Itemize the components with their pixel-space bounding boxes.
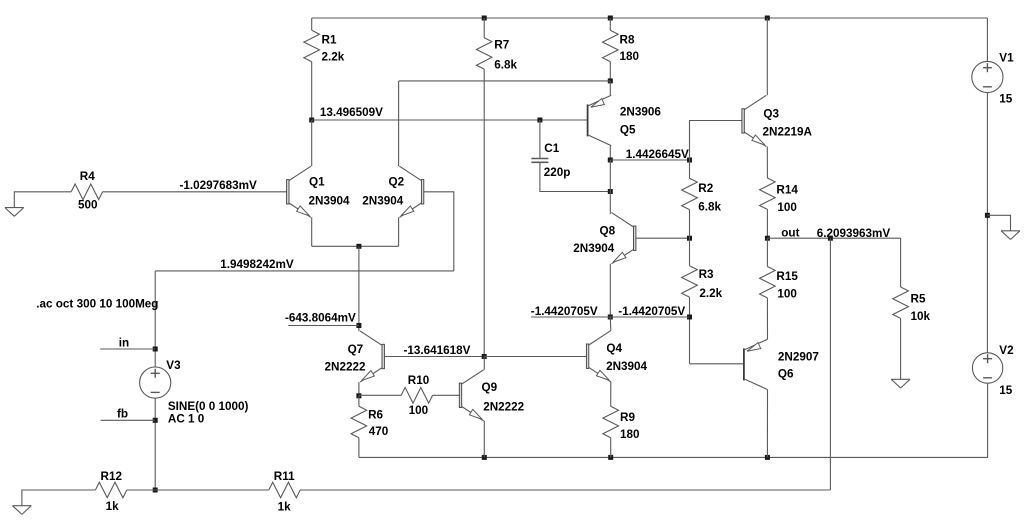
node -13.641618V junction bbox=[482, 354, 487, 359]
node junction C1 bottom bbox=[608, 189, 613, 194]
svg-text:R11: R11 bbox=[274, 470, 295, 483]
svg-text:2.2k: 2.2k bbox=[699, 287, 722, 300]
label Q7 bbox=[348, 343, 364, 356]
wire R4 to Q1 base bbox=[103, 191, 287, 193]
svg-text:fb: fb bbox=[117, 408, 128, 421]
wire out node bbox=[767, 237, 900, 239]
node junction Q7 emitter / R6 / R10 bbox=[356, 393, 361, 398]
label Q3 bbox=[763, 108, 779, 121]
wire Q8 collector vertical bbox=[609, 160, 611, 214]
svg-text:Q1: Q1 bbox=[309, 176, 325, 189]
wire V1 bottom to V2 top bbox=[986, 93, 988, 353]
label fb bbox=[117, 408, 128, 421]
label R3 bbox=[699, 268, 714, 281]
wire Q5 collector lead bbox=[609, 146, 611, 160]
label R7 bbox=[494, 38, 509, 51]
wire feedback to V3 bbox=[155, 270, 454, 272]
svg-text:-13.641618V: -13.641618V bbox=[404, 344, 471, 357]
wire node to Q5 base bbox=[312, 119, 588, 121]
label 100 (R14) bbox=[777, 201, 797, 214]
label 2N3904 (Q1) bbox=[309, 195, 350, 208]
svg-text:out: out bbox=[781, 227, 799, 240]
resistor R3 bbox=[682, 238, 698, 364]
wire bottom negative rail bbox=[359, 456, 988, 458]
svg-text:Q8: Q8 bbox=[600, 225, 616, 238]
wire left ground lead bbox=[14, 192, 71, 208]
wire R12 to R11 bbox=[127, 489, 269, 491]
node junction C1 top bbox=[537, 118, 542, 123]
wire Q8 emitter down bbox=[609, 264, 611, 317]
wire Q4 emitter down bbox=[610, 382, 612, 407]
node -643.8064mV junction bbox=[356, 323, 361, 328]
label 13.496509V bbox=[320, 106, 383, 119]
label 15 (V2 value) bbox=[999, 384, 1013, 397]
svg-text:2N3904: 2N3904 bbox=[606, 360, 647, 373]
svg-text:V2: V2 bbox=[999, 344, 1014, 357]
label Q6 bbox=[778, 367, 794, 380]
svg-text:2N2219A: 2N2219A bbox=[763, 126, 813, 139]
node junction R9 bottom bbox=[608, 455, 613, 460]
svg-text:R15: R15 bbox=[776, 270, 798, 283]
transistor Q2 bbox=[399, 166, 423, 217]
svg-text:100: 100 bbox=[777, 288, 797, 301]
svg-text:13.496509V: 13.496509V bbox=[320, 106, 383, 119]
node junction V3 bottom bbox=[153, 488, 158, 493]
transistor Q3 bbox=[742, 95, 766, 146]
label 1.9498242mV bbox=[220, 258, 294, 271]
ground under R5 bbox=[891, 379, 910, 388]
svg-text:Q7: Q7 bbox=[348, 343, 364, 356]
svg-text:Q5: Q5 bbox=[620, 124, 636, 137]
label Q2 bbox=[389, 176, 405, 189]
resistor R8 bbox=[603, 18, 619, 81]
label 2N3904 (Q2) bbox=[362, 195, 403, 208]
wire out vertical to feedback bbox=[829, 238, 831, 490]
svg-text:V1: V1 bbox=[999, 51, 1014, 64]
label 2N3906 (Q5) bbox=[620, 105, 661, 118]
label R6 bbox=[368, 409, 383, 422]
resistor R11 bbox=[269, 482, 300, 498]
voltage source V3 bbox=[140, 367, 171, 398]
svg-text:2N3906: 2N3906 bbox=[620, 105, 661, 118]
wire Q3 collector up bbox=[766, 18, 768, 95]
svg-text:2N2222: 2N2222 bbox=[325, 361, 366, 374]
node junction R8 bottom bbox=[608, 78, 613, 83]
label -13.641618V bbox=[404, 344, 471, 357]
svg-text:6.8k: 6.8k bbox=[494, 59, 517, 72]
label V2 bbox=[999, 344, 1014, 357]
label 2N2907 (Q6) bbox=[778, 351, 819, 364]
wire Q6 base wire bbox=[690, 363, 744, 365]
wire tail vertical bbox=[358, 246, 360, 331]
wire V3 vertical top bbox=[154, 271, 156, 367]
label 10k (R5) bbox=[911, 310, 931, 323]
resistor R14 bbox=[760, 178, 776, 238]
node -1.4420705V junction left bbox=[608, 315, 613, 320]
svg-text:-1.0297683mV: -1.0297683mV bbox=[180, 179, 258, 192]
svg-text:15: 15 bbox=[999, 384, 1013, 397]
label Q1 bbox=[309, 176, 325, 189]
node -1.4420705V junction right bbox=[687, 315, 692, 320]
wire V2 bottom lead bbox=[986, 383, 988, 457]
label 2.2k (R3) bbox=[699, 287, 722, 300]
node junction R7 top bbox=[482, 16, 487, 21]
resistor R5 bbox=[893, 287, 909, 379]
node out junction bbox=[765, 236, 770, 241]
svg-text:2N3904: 2N3904 bbox=[573, 242, 614, 255]
wire out to R5 bbox=[900, 238, 902, 287]
node junction R2 top bbox=[687, 158, 692, 163]
label R4 bbox=[80, 170, 95, 183]
label Q4 bbox=[606, 342, 622, 355]
wire emitter rail bbox=[312, 245, 399, 247]
label R12 bbox=[101, 470, 123, 483]
label 180 (R9) bbox=[620, 428, 640, 441]
transistor Q4 bbox=[586, 331, 610, 382]
resistor R7 bbox=[476, 18, 492, 357]
resistor R4 bbox=[71, 184, 102, 200]
wire 1.4426645V node bbox=[610, 159, 689, 161]
svg-text:R12: R12 bbox=[101, 470, 123, 483]
label 180 (R8) bbox=[620, 50, 640, 63]
svg-text:V3: V3 bbox=[166, 359, 181, 372]
node 1.4426645V junction bbox=[608, 158, 613, 163]
label 2N3904 (Q8) bbox=[573, 242, 614, 255]
label 6.8k (R2) bbox=[698, 201, 721, 214]
label 100 (R15) bbox=[777, 288, 797, 301]
label V1 bbox=[999, 51, 1014, 64]
svg-text:Q2: Q2 bbox=[389, 176, 405, 189]
label 1k (R12) bbox=[106, 500, 120, 513]
svg-text:100: 100 bbox=[777, 201, 797, 214]
label 2.2k (R1) bbox=[322, 51, 345, 64]
label R2 bbox=[698, 182, 713, 195]
svg-text:500: 500 bbox=[78, 198, 98, 211]
svg-text:-1.4420705V: -1.4420705V bbox=[531, 305, 598, 318]
svg-text:Q3: Q3 bbox=[763, 108, 779, 121]
wire R11 to out vertical bbox=[300, 489, 830, 491]
wire Q3 base wire bbox=[690, 121, 742, 161]
svg-text:-643.8064mV: -643.8064mV bbox=[285, 312, 356, 325]
node junction out vertical bbox=[828, 236, 833, 241]
label R5 bbox=[911, 293, 926, 306]
svg-text:2N3904: 2N3904 bbox=[362, 195, 403, 208]
label AC 1 0 bbox=[168, 413, 205, 426]
label Q8 bbox=[600, 225, 616, 238]
label 6.8k (R7) bbox=[494, 59, 517, 72]
transistor Q5 bbox=[588, 95, 612, 145]
label R10 bbox=[408, 374, 430, 387]
wire Q2 collector to R8 bottom bbox=[399, 80, 611, 82]
svg-text:1k: 1k bbox=[106, 500, 120, 513]
transistor Q7 bbox=[360, 331, 384, 382]
label -643.8064mV bbox=[285, 312, 356, 325]
wire Q7 emitter lead bbox=[358, 382, 360, 396]
label Q5 bbox=[620, 124, 636, 137]
label R9 bbox=[620, 411, 635, 424]
label R15 bbox=[776, 270, 798, 283]
voltage source V2 bbox=[972, 353, 1002, 383]
label -1.4420705V (right) bbox=[618, 305, 685, 318]
svg-text:R5: R5 bbox=[911, 293, 926, 306]
svg-text:R1: R1 bbox=[322, 34, 337, 47]
capacitor C1 bbox=[531, 120, 610, 192]
node junction Q9 emitter bottom bbox=[482, 455, 487, 460]
svg-text:Q9: Q9 bbox=[482, 381, 498, 394]
svg-text:R6: R6 bbox=[368, 409, 383, 422]
wire Q6 collector down bbox=[766, 390, 768, 458]
svg-text:10k: 10k bbox=[911, 310, 931, 323]
svg-text:1k: 1k bbox=[278, 501, 292, 514]
wire Q4 collector up bbox=[609, 317, 612, 331]
wire Q1 emitter lead bbox=[311, 217, 313, 246]
svg-text:1.9498242mV: 1.9498242mV bbox=[220, 258, 294, 271]
resistor R9 bbox=[603, 406, 619, 457]
resistor R1 bbox=[304, 18, 320, 120]
node junction R2-R3-Q8 bbox=[687, 236, 692, 241]
svg-text:Q6: Q6 bbox=[778, 367, 794, 380]
label 2N2222 (Q7) bbox=[325, 361, 366, 374]
wire Q9 collector up bbox=[483, 357, 485, 370]
svg-text:R9: R9 bbox=[620, 411, 635, 424]
svg-text:R2: R2 bbox=[698, 182, 713, 195]
wire fb stub bbox=[101, 419, 156, 421]
node junction Q6 collector bottom bbox=[765, 455, 770, 460]
node junction R8 top bbox=[608, 16, 613, 21]
node junction Q3 collector bbox=[765, 16, 770, 21]
wire Q7 base wire bbox=[384, 356, 484, 358]
svg-text:C1: C1 bbox=[544, 142, 559, 155]
node fb junction bbox=[153, 418, 158, 423]
wire Q2 collector up bbox=[398, 81, 400, 166]
svg-text:R7: R7 bbox=[494, 38, 509, 51]
label -1.4420705V (left) bbox=[531, 305, 598, 318]
label 100 (R10) bbox=[409, 404, 429, 417]
wire in stub bbox=[100, 348, 155, 350]
wire bottom left ground lead bbox=[22, 490, 96, 506]
wire Q3 emitter down bbox=[766, 147, 768, 179]
label 2N3904 (Q4) bbox=[606, 360, 647, 373]
svg-text:180: 180 bbox=[620, 428, 640, 441]
svg-text:180: 180 bbox=[620, 50, 640, 63]
resistor R10 bbox=[359, 388, 459, 404]
label 500 (R4) bbox=[78, 198, 98, 211]
label 2N2219A (Q3) bbox=[763, 126, 813, 139]
wire Q9 emitter down bbox=[483, 421, 485, 458]
wire Q4 base wire bbox=[484, 356, 586, 358]
svg-text:220p: 220p bbox=[544, 166, 571, 179]
svg-text:100: 100 bbox=[409, 404, 429, 417]
wire V1 top lead bbox=[986, 18, 988, 61]
svg-text:R14: R14 bbox=[776, 183, 798, 196]
transistor Q6 bbox=[744, 339, 768, 389]
wire ground stub right bbox=[987, 215, 1010, 231]
resistor R2 bbox=[682, 160, 698, 238]
resistor R6 bbox=[351, 396, 367, 458]
label Q9 bbox=[482, 381, 498, 394]
resistor R15 bbox=[760, 238, 776, 339]
label 470 (R6) bbox=[369, 425, 389, 438]
svg-text:2N2222: 2N2222 bbox=[483, 401, 524, 414]
svg-text:SINE(0 0 1000): SINE(0 0 1000) bbox=[168, 400, 249, 413]
svg-text:-1.4420705V: -1.4420705V bbox=[618, 305, 685, 318]
label 2N2222 (Q9) bbox=[483, 401, 524, 414]
label in bbox=[119, 337, 129, 350]
ground bottom left bbox=[13, 506, 32, 515]
svg-text:6.8k: 6.8k bbox=[698, 201, 721, 214]
label 220p (C1) bbox=[544, 166, 571, 179]
resistor R12 bbox=[95, 482, 126, 498]
svg-text:2N2907: 2N2907 bbox=[778, 351, 819, 364]
svg-text:2.2k: 2.2k bbox=[322, 51, 345, 64]
node in junction bbox=[153, 347, 158, 352]
label 15 (V1 value) bbox=[999, 93, 1013, 106]
svg-text:in: in bbox=[119, 337, 129, 350]
ground left input bbox=[5, 208, 24, 217]
svg-text:R8: R8 bbox=[620, 34, 635, 47]
wire Q2 base stub bbox=[424, 192, 454, 271]
label .ac directive bbox=[36, 298, 158, 311]
svg-text:Q4: Q4 bbox=[606, 342, 622, 355]
svg-text:2N3904: 2N3904 bbox=[309, 195, 350, 208]
label R8 bbox=[620, 34, 635, 47]
wire Q1 collector bbox=[311, 120, 313, 166]
transistor Q9 bbox=[459, 370, 483, 421]
svg-text:R10: R10 bbox=[408, 374, 430, 387]
label R14 bbox=[776, 183, 798, 196]
wire Q5 emitter lead bbox=[609, 81, 611, 95]
wire Q2 emitter lead bbox=[398, 217, 400, 246]
transistor Q8 bbox=[612, 213, 636, 264]
svg-text:AC 1 0: AC 1 0 bbox=[168, 413, 205, 426]
node junction diff pair tail bbox=[356, 244, 361, 249]
label R11 bbox=[274, 470, 295, 483]
label 1.4426645V bbox=[626, 148, 689, 161]
label 1k (R11) bbox=[278, 501, 292, 514]
label -1.0297683mV bbox=[180, 179, 258, 192]
label C1 bbox=[544, 142, 559, 155]
node 13.496509V junction bbox=[309, 118, 314, 123]
ground right mid bbox=[1001, 231, 1020, 240]
transistor Q1 bbox=[287, 166, 311, 217]
node junction V1-V2 bbox=[985, 213, 990, 218]
svg-text:1.4426645V: 1.4426645V bbox=[626, 148, 689, 161]
svg-text:470: 470 bbox=[369, 425, 389, 438]
wire -643.8064mV stub bbox=[288, 325, 359, 327]
label R1 bbox=[322, 34, 337, 47]
voltage source V1 bbox=[972, 61, 1003, 92]
wire Q8 base wire bbox=[636, 237, 690, 239]
wire V3 bottom lead bbox=[154, 398, 156, 490]
svg-text:R3: R3 bbox=[699, 268, 714, 281]
wire -1.4420705V bbox=[531, 316, 690, 318]
label SINE(0 0 1000) bbox=[168, 400, 249, 413]
svg-text:.ac oct 300 10 100Meg: .ac oct 300 10 100Meg bbox=[36, 298, 158, 311]
label V3 bbox=[166, 359, 181, 372]
wire top supply rail bbox=[312, 17, 988, 19]
label out bbox=[781, 227, 799, 240]
svg-text:15: 15 bbox=[999, 93, 1013, 106]
svg-text:R4: R4 bbox=[80, 170, 95, 183]
label 6.2093963mV bbox=[817, 227, 891, 240]
